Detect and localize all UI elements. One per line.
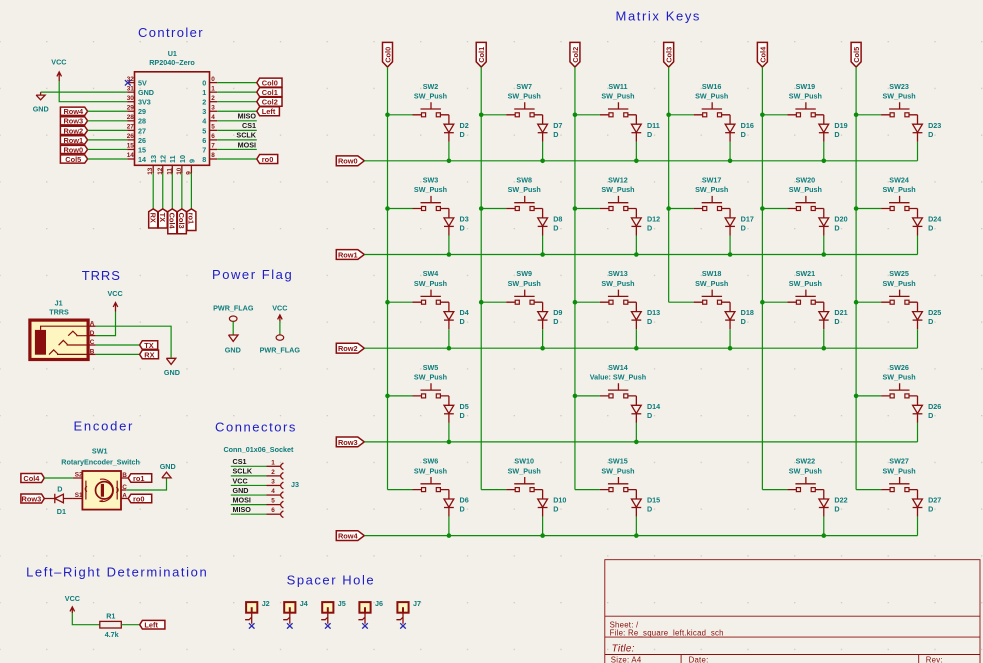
svg-text:8: 8 (211, 152, 215, 159)
svg-text:SW11: SW11 (608, 82, 627, 91)
svg-text:SW22: SW22 (796, 457, 816, 466)
svg-text:14: 14 (127, 152, 135, 159)
svg-text:SW_Push: SW_Push (883, 185, 916, 194)
svg-text:SW_Push: SW_Push (883, 279, 916, 288)
svg-text:D: D (553, 130, 558, 139)
wire Col2 column (574, 67, 576, 490)
wire Col5 column (855, 67, 857, 490)
svg-text:SW26: SW26 (889, 363, 909, 372)
J3 pin 3 (267, 484, 281, 486)
junction D19 to Row0 (821, 159, 826, 164)
diode D8 (538, 209, 548, 255)
svg-text:SW9: SW9 (516, 269, 532, 278)
svg-text:D: D (460, 224, 465, 233)
svg-text:Col2: Col2 (571, 47, 580, 63)
U1 left pins 32,31,30,29,28,27,26,15,14 (127, 76, 154, 164)
svg-text:5: 5 (211, 124, 215, 131)
svg-text:D: D (57, 485, 62, 494)
svg-text:Col4: Col4 (758, 46, 767, 63)
svg-text:SW_Push: SW_Push (695, 92, 728, 101)
svg-text:Col5: Col5 (852, 47, 861, 63)
diode D13 (631, 302, 641, 348)
switch SW22 (762, 477, 823, 492)
svg-text:Conn_01x06_Socket: Conn_01x06_Socket (223, 445, 294, 454)
global label Col4 at encoder (21, 474, 44, 483)
svg-text:SW2: SW2 (423, 82, 439, 91)
J1 internal contacts (41, 326, 88, 330)
svg-text:SW15: SW15 (608, 457, 628, 466)
svg-text:3: 3 (211, 104, 215, 111)
svg-text:4: 4 (271, 488, 275, 495)
svg-text:3: 3 (271, 478, 275, 485)
svg-text:D: D (553, 224, 558, 233)
svg-text:SW17: SW17 (702, 176, 722, 185)
svg-text:Controler: Controler (138, 25, 204, 40)
junction D14 to Row3 (634, 440, 639, 445)
svg-text:SW_Push: SW_Push (789, 185, 822, 194)
svg-text:5: 5 (202, 126, 206, 135)
svg-text:ro1: ro1 (187, 213, 196, 225)
svg-text:D24: D24 (928, 215, 941, 224)
svg-text:5V: 5V (138, 79, 147, 88)
junction D2 to Row0 (447, 159, 452, 164)
svg-text:D: D (647, 505, 652, 514)
diode D25 (913, 302, 923, 348)
svg-text:4: 4 (202, 117, 206, 126)
svg-text:SW6: SW6 (423, 457, 439, 466)
junction Col0 Row2 tap (385, 300, 390, 305)
SW1 knob circle (96, 482, 113, 499)
diode D1 (44, 494, 73, 504)
svg-text:S2: S2 (75, 472, 83, 479)
svg-text:Left: Left (144, 621, 158, 630)
power symbol GND at encoder (160, 462, 176, 478)
svg-text:D13: D13 (647, 308, 660, 317)
svg-text:SW_Push: SW_Push (414, 373, 447, 382)
svg-text:Row4: Row4 (63, 107, 84, 116)
svg-text:6: 6 (202, 136, 206, 145)
junction D17 to Row1 (728, 252, 733, 257)
global label Row1 matrix (336, 250, 364, 260)
svg-text:SCLK: SCLK (236, 131, 256, 140)
J1 pins A D C B (88, 325, 96, 327)
global label Row3 matrix (336, 437, 364, 447)
svg-text:2: 2 (202, 98, 206, 107)
svg-text:SW3: SW3 (423, 176, 439, 185)
svg-text:0: 0 (211, 76, 215, 83)
svg-text:B: B (122, 472, 127, 479)
junction D12 to Row1 (634, 252, 639, 257)
svg-text:Encoder: Encoder (73, 419, 134, 434)
svg-text:MISO: MISO (233, 505, 252, 514)
svg-text:RX: RX (144, 350, 154, 359)
global label RX at U1 (149, 209, 158, 228)
wire Col1 column (480, 67, 482, 490)
wire U1 Row3 (88, 120, 128, 122)
wire J3 pin 6 (231, 513, 267, 515)
global label TX (140, 341, 158, 350)
junction D18 to Row2 (728, 346, 733, 351)
svg-text:D: D (834, 224, 839, 233)
svg-text:TX: TX (144, 341, 154, 350)
svg-text:S1: S1 (75, 492, 83, 499)
no-connect X at J5 (325, 623, 331, 628)
svg-text:D22: D22 (834, 496, 847, 505)
switch SW20 (762, 196, 823, 211)
svg-text:A: A (122, 493, 127, 500)
svg-text:Title:: Title: (612, 643, 635, 654)
svg-text:MISO: MISO (238, 112, 257, 121)
wire U1 Col0 (217, 82, 257, 84)
svg-text:SW_Push: SW_Push (789, 92, 822, 101)
junction D8 to Row1 (540, 252, 545, 257)
svg-text:D20: D20 (834, 215, 847, 224)
svg-text:29: 29 (127, 104, 135, 111)
svg-text:SW_Push: SW_Push (601, 279, 634, 288)
junction Col2 Row1 tap (573, 206, 578, 211)
svg-text:Row3: Row3 (338, 438, 358, 447)
svg-text:SW12: SW12 (608, 176, 628, 185)
junction Col5 Row3 tap (854, 394, 859, 399)
junction Col1 Row0 tap (479, 113, 484, 118)
title block text (610, 620, 943, 663)
svg-text:1: 1 (202, 88, 206, 97)
svg-text:SW1: SW1 (92, 447, 108, 456)
svg-text:Row3: Row3 (63, 117, 83, 126)
global label Col3 matrix (664, 42, 674, 67)
svg-text:D: D (553, 317, 558, 326)
junction Col5 Row2 tap (854, 300, 859, 305)
switch SW24 (856, 196, 917, 211)
svg-text:15: 15 (138, 145, 146, 154)
junction D6 to Row4 (447, 533, 452, 538)
switch SW14 (575, 383, 636, 398)
svg-text:ro0: ro0 (133, 494, 145, 503)
global label Col0 matrix (383, 42, 393, 67)
svg-text:D: D (928, 317, 933, 326)
junction D16 to Row0 (728, 159, 733, 164)
wire Row3 row (364, 441, 917, 443)
svg-text:SW24: SW24 (889, 176, 909, 185)
wire Row4 row (364, 535, 917, 537)
svg-text:26: 26 (127, 133, 135, 140)
wire U1 SCLK (217, 139, 257, 141)
svg-text:D6: D6 (460, 496, 469, 505)
svg-text:D14: D14 (647, 402, 660, 411)
wire U1 Col5 (88, 158, 128, 160)
svg-text:Left–Right Determination: Left–Right Determination (26, 564, 208, 579)
junction Col2 Row3 tap (573, 394, 578, 399)
svg-text:0: 0 (202, 79, 206, 88)
global label Col5 at U1 (60, 155, 87, 163)
svg-text:SW_Push: SW_Push (508, 185, 541, 194)
diode D22 (819, 490, 829, 536)
svg-text:D8: D8 (553, 215, 562, 224)
svg-text:SW_Push: SW_Push (508, 279, 541, 288)
svg-text:SW_Push: SW_Push (414, 185, 447, 194)
svg-text:Row4: Row4 (338, 532, 359, 541)
switch SW4 (388, 290, 449, 305)
svg-text:Row1: Row1 (338, 250, 358, 259)
svg-text:4: 4 (211, 114, 215, 121)
junction Col0 Row1 tap (385, 206, 390, 211)
no-connect X at J4 (287, 623, 293, 628)
power symbol VCC at TRRS (108, 289, 123, 312)
svg-text:D: D (647, 130, 652, 139)
diode D16 (725, 115, 735, 161)
svg-text:2: 2 (271, 469, 275, 476)
svg-text:SW_Push: SW_Push (601, 185, 634, 194)
global label Row4 matrix (336, 531, 364, 541)
mounting hole J2 (245, 599, 270, 629)
title block frame (605, 560, 980, 663)
switch SW10 (481, 477, 542, 492)
J1 sleeve bar (35, 330, 46, 355)
diode D10 (538, 490, 548, 536)
svg-text:GND: GND (138, 88, 154, 97)
svg-text:Size: A4: Size: A4 (611, 655, 642, 663)
svg-text:2: 2 (211, 95, 215, 102)
svg-text:27: 27 (127, 124, 135, 131)
wire U1 Col4 (171, 173, 173, 209)
global label Row3 at encoder (21, 494, 44, 503)
svg-text:D4: D4 (460, 308, 469, 317)
svg-text:1: 1 (211, 85, 215, 92)
wire U1 ro1 (190, 173, 192, 209)
svg-text:D21: D21 (834, 308, 847, 317)
svg-text:CS1: CS1 (242, 121, 256, 130)
svg-text:9: 9 (187, 159, 196, 163)
svg-text:SW_Push: SW_Push (789, 466, 822, 475)
svg-text:Matrix Keys: Matrix Keys (616, 8, 702, 23)
svg-text:SW_Push: SW_Push (601, 466, 634, 475)
junction Col1 Row2 tap (479, 300, 484, 305)
switch SW27 (856, 477, 917, 492)
diode D20 (819, 209, 829, 255)
wire Col4 to SW1-S2 (44, 477, 73, 479)
switch SW12 (575, 196, 636, 211)
svg-text:D: D (928, 224, 933, 233)
wire U1 Row1 (88, 139, 128, 141)
svg-text:GND: GND (225, 345, 241, 354)
global label Col2 at U1 (257, 97, 282, 106)
junction D4 to Row2 (447, 346, 452, 351)
svg-text:SW_Push: SW_Push (695, 279, 728, 288)
svg-text:28: 28 (138, 117, 146, 126)
global label Col4 matrix (757, 42, 767, 67)
diode D19 (819, 115, 829, 161)
svg-text:D: D (90, 330, 95, 337)
global label Row4 at U1 (60, 107, 87, 115)
junction Col0 Row3 tap (385, 394, 390, 399)
no-connect X at J6 (362, 623, 368, 628)
svg-text:SW_Push: SW_Push (883, 466, 916, 475)
global label Col4 at U1 (168, 209, 177, 234)
svg-text:SW18: SW18 (702, 269, 722, 278)
svg-text:J7: J7 (413, 599, 421, 608)
svg-text:D: D (741, 130, 746, 139)
switch SW8 (481, 196, 542, 211)
wire U1 ro0 (217, 158, 257, 160)
svg-text:D1: D1 (57, 507, 66, 516)
svg-text:Col4: Col4 (23, 474, 40, 483)
wire U1 MISO (217, 120, 257, 122)
wire U1 MOSI (217, 148, 257, 150)
svg-text:Col2: Col2 (262, 98, 278, 107)
svg-text:SW_Push: SW_Push (789, 279, 822, 288)
junction Col5 Row1 tap (854, 206, 859, 211)
junction D20 to Row1 (821, 252, 826, 257)
diode D15 (631, 490, 641, 536)
switch SW21 (762, 290, 823, 305)
diode D11 (631, 115, 641, 161)
global label Row0 matrix (336, 156, 364, 166)
svg-text:D: D (553, 505, 558, 514)
svg-text:26: 26 (138, 136, 146, 145)
svg-text:J2: J2 (262, 599, 270, 608)
switch SW3 (388, 196, 449, 211)
svg-text:14: 14 (138, 155, 146, 164)
J3 pin 5 (267, 504, 281, 506)
svg-text:D3: D3 (460, 215, 469, 224)
global label Col5 matrix (851, 42, 861, 67)
svg-text:GND: GND (160, 462, 176, 471)
svg-text:D: D (928, 505, 933, 514)
svg-text:D15: D15 (647, 496, 660, 505)
svg-text:SW25: SW25 (889, 269, 909, 278)
svg-text:SW23: SW23 (889, 82, 909, 91)
svg-text:Row0: Row0 (338, 157, 358, 166)
global label TX at U1 (158, 209, 167, 228)
diode D7 (538, 115, 548, 161)
svg-text:D: D (460, 317, 465, 326)
global label Row3 at U1 (60, 117, 87, 125)
svg-text:Row0: Row0 (63, 145, 83, 154)
svg-text:SW21: SW21 (796, 269, 816, 278)
wire U1 TX (162, 173, 164, 209)
mounting hole J4 (283, 599, 308, 629)
wire U1 Row4 (88, 110, 128, 112)
svg-text:SW27: SW27 (889, 457, 909, 466)
junction Col4 Row2 tap (760, 300, 765, 305)
svg-text:D19: D19 (834, 121, 847, 130)
switch SW5 (388, 383, 449, 398)
svg-text:D: D (834, 317, 839, 326)
svg-text:11: 11 (168, 155, 177, 163)
svg-text:6: 6 (271, 507, 275, 514)
svg-text:D: D (741, 224, 746, 233)
SW1 pins S2 S1 B C A (73, 478, 128, 499)
wire Col4 column (761, 67, 763, 490)
svg-text:10: 10 (178, 155, 187, 163)
diode D23 (913, 115, 923, 161)
svg-text:Col1: Col1 (477, 47, 486, 63)
wire J3 pin 4 (231, 494, 267, 496)
svg-text:PWR_FLAG: PWR_FLAG (260, 345, 301, 354)
svg-text:D: D (460, 411, 465, 420)
power symbol VCC at R1 (65, 594, 80, 613)
global label Row0 at U1 (60, 145, 87, 153)
diode D14 (631, 396, 641, 442)
svg-text:Col0: Col0 (262, 79, 278, 88)
svg-text:VCC: VCC (233, 476, 248, 485)
svg-text:Date:: Date: (689, 655, 709, 663)
svg-text:D5: D5 (460, 402, 469, 411)
svg-text:B: B (90, 349, 95, 356)
wire U1 Row2 (88, 129, 128, 131)
svg-text:D: D (834, 130, 839, 139)
junction D9 to Row2 (540, 346, 545, 351)
no-connect X at J7 (400, 623, 406, 628)
svg-text:TRRS: TRRS (82, 268, 121, 283)
switch SW26 (856, 383, 917, 398)
power flag VCC/PWR_FLAG pair (260, 304, 301, 355)
switch SW15 (575, 477, 636, 492)
junction D21 to Row2 (821, 346, 826, 351)
switch SW13 (575, 290, 636, 305)
J3 pin 4 (267, 494, 281, 496)
wire Row1 row (364, 254, 917, 256)
svg-text:PWR_FLAG: PWR_FLAG (213, 304, 254, 313)
junction Col2 Row0 tap (573, 113, 578, 118)
diode D9 (538, 302, 548, 348)
svg-text:RX: RX (149, 213, 158, 223)
svg-text:SW_Push: SW_Push (883, 92, 916, 101)
switch SW7 (481, 102, 542, 117)
diode D26 (913, 396, 923, 442)
svg-text:Rev:: Rev: (926, 655, 943, 663)
svg-text:Col5: Col5 (65, 155, 81, 164)
mounting hole J6 (358, 599, 383, 629)
svg-text:SW19: SW19 (796, 82, 816, 91)
svg-text:U1: U1 (168, 49, 177, 58)
global label Left at U1 (257, 107, 280, 116)
svg-text:15: 15 (127, 143, 135, 150)
svg-text:SW5: SW5 (423, 363, 439, 372)
svg-text:7: 7 (202, 145, 206, 154)
svg-text:D25: D25 (928, 308, 941, 317)
svg-text:VCC: VCC (108, 289, 123, 298)
power symbol GND at U1 (33, 92, 49, 113)
wire VCC to R1 (72, 613, 100, 625)
svg-text:Left: Left (262, 107, 276, 116)
svg-text:Col3: Col3 (177, 213, 186, 229)
global label Row2 at U1 (60, 126, 87, 134)
svg-text:D27: D27 (928, 496, 941, 505)
svg-text:Col4: Col4 (168, 213, 177, 230)
svg-text:J6: J6 (375, 599, 383, 608)
svg-text:GND: GND (33, 105, 49, 114)
junction Col0 Row0 tap (385, 113, 390, 118)
junction Col5 Row0 tap (854, 113, 859, 118)
wire Col3 column (668, 67, 670, 302)
svg-text:SW_Push: SW_Push (508, 92, 541, 101)
wire J1-D to VCC (96, 312, 116, 336)
svg-text:29: 29 (138, 107, 146, 116)
svg-text:7: 7 (211, 143, 215, 150)
global label Col1 at U1 (257, 88, 282, 97)
diode D18 (725, 302, 735, 348)
global label ro0 (128, 494, 152, 503)
svg-text:D11: D11 (647, 121, 660, 130)
no-connect X at J2 (249, 623, 255, 628)
svg-text:31: 31 (127, 85, 135, 92)
junction D10 to Row4 (540, 533, 545, 538)
global label Row2 matrix (336, 343, 364, 353)
diode D12 (631, 209, 641, 255)
power flag PWR_FLAG/GND pair (213, 304, 254, 355)
wire Row2 row (364, 347, 917, 349)
